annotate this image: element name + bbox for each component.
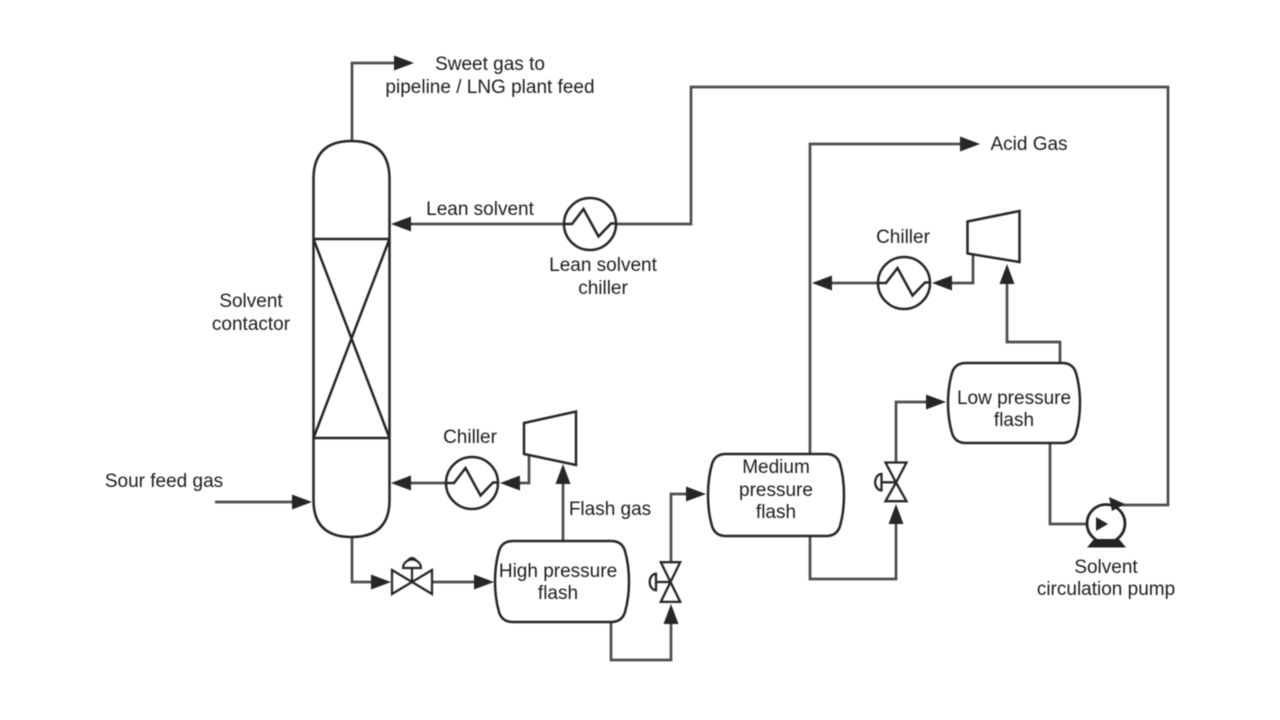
- svg-text:flash: flash: [994, 410, 1034, 431]
- svg-text:circulation pump: circulation pump: [1037, 579, 1175, 600]
- svg-text:Sour feed gas: Sour feed gas: [105, 471, 223, 492]
- svg-text:Chiller: Chiller: [443, 427, 498, 448]
- svg-text:Flash gas: Flash gas: [569, 499, 651, 520]
- svg-text:pressure: pressure: [739, 480, 813, 501]
- svg-text:contactor: contactor: [212, 314, 291, 335]
- svg-text:Solvent: Solvent: [1074, 557, 1138, 578]
- svg-text:Sweet gas to: Sweet gas to: [435, 54, 545, 75]
- svg-text:Medium: Medium: [742, 457, 810, 478]
- svg-text:flash: flash: [538, 583, 578, 604]
- svg-text:Lean solvent: Lean solvent: [549, 255, 657, 276]
- svg-text:flash: flash: [756, 502, 796, 523]
- svg-text:Lean solvent: Lean solvent: [426, 199, 534, 220]
- svg-text:Low pressure: Low pressure: [957, 388, 1071, 409]
- svg-text:Acid Gas: Acid Gas: [990, 134, 1067, 155]
- svg-text:Solvent: Solvent: [219, 291, 283, 312]
- svg-text:Chiller: Chiller: [876, 227, 931, 248]
- svg-text:pipeline / LNG plant feed: pipeline / LNG plant feed: [385, 77, 594, 98]
- svg-text:High pressure: High pressure: [499, 561, 617, 582]
- svg-text:chiller: chiller: [578, 278, 628, 299]
